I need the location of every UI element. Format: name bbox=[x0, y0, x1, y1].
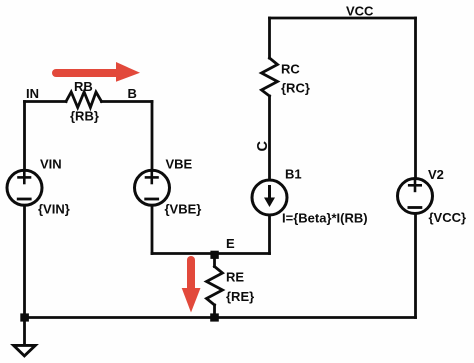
svg-text:{VIN}: {VIN} bbox=[38, 202, 70, 217]
junction node E bbox=[210, 251, 218, 259]
svg-text:RC: RC bbox=[281, 62, 300, 77]
svg-text:{RE}: {RE} bbox=[226, 289, 254, 304]
svg-text:{VBE}: {VBE} bbox=[165, 202, 202, 217]
wire VCC top rail bbox=[270, 17, 416, 20]
svg-text:C: C bbox=[255, 140, 271, 151]
wire node C vertical (B1 top to RC bottom) bbox=[268, 96, 271, 180]
red arrow beside RE (emitter current direction) bbox=[182, 256, 201, 313]
svg-text:IN: IN bbox=[26, 86, 39, 101]
red arrow over RB (base current direction) bbox=[52, 62, 140, 82]
voltage source VBE bbox=[135, 170, 170, 205]
resistor RC bbox=[262, 58, 278, 96]
voltage source V2 bbox=[398, 179, 433, 214]
wire V2 bottom down to ground rail bbox=[414, 213, 417, 317]
wire right vertical down to V2 top bbox=[414, 18, 417, 179]
wire node B vertical down to VBE top bbox=[151, 102, 154, 171]
junction RE bottom on rail bbox=[210, 313, 219, 321]
wire RB right lead to node B bbox=[102, 100, 153, 103]
svg-text:VBE: VBE bbox=[166, 157, 193, 172]
wire ground stub bbox=[23, 318, 26, 345]
current source B1 bbox=[252, 180, 287, 215]
svg-text:I={Beta}*I(RB): I={Beta}*I(RB) bbox=[282, 211, 368, 226]
svg-text:E: E bbox=[226, 236, 235, 251]
svg-text:RB: RB bbox=[74, 79, 93, 94]
svg-text:V2: V2 bbox=[428, 167, 444, 182]
svg-text:VIN: VIN bbox=[40, 157, 62, 172]
wire node E horizontal (VBE branch to B1 branch) bbox=[152, 252, 270, 255]
wire IN vertical (node IN down to VIN top) bbox=[23, 102, 26, 171]
wire IN horizontal (IN corner to RB left lead) bbox=[25, 100, 67, 103]
resistor RE bbox=[207, 254, 223, 318]
voltage source VIN bbox=[7, 170, 42, 205]
wire VBE bottom down to E rail bbox=[151, 205, 154, 253]
svg-text:{RC}: {RC} bbox=[281, 81, 310, 96]
wire B1 bottom lead bbox=[268, 215, 271, 254]
wire VIN bottom to ground rail bbox=[23, 205, 26, 317]
svg-text:VCC: VCC bbox=[346, 3, 374, 18]
junction at VIN/ground rail bbox=[20, 313, 29, 321]
svg-text:B1: B1 bbox=[285, 167, 302, 182]
svg-text:{VCC}: {VCC} bbox=[429, 210, 467, 225]
wire ground rail bbox=[25, 316, 416, 319]
wire RC top lead to VCC rail corner bbox=[268, 18, 271, 58]
resistor RB bbox=[66, 92, 102, 108]
svg-text:{RB}: {RB} bbox=[70, 109, 99, 124]
svg-text:B: B bbox=[128, 86, 137, 101]
ground bbox=[14, 345, 36, 356]
svg-text:RE: RE bbox=[226, 270, 244, 285]
